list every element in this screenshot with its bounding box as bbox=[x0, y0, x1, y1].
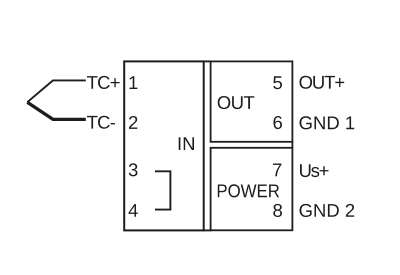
power section box POWER bbox=[211, 148, 293, 231]
pin 7 bbox=[273, 164, 281, 177]
label Us+ bbox=[300, 164, 329, 177]
label TC+ bbox=[87, 76, 120, 89]
pin 5 bbox=[273, 76, 282, 89]
wire TC- lead (thick thermocouple leg) bbox=[27, 102, 86, 119]
label IN bbox=[179, 137, 194, 150]
label GND 2 bbox=[300, 204, 355, 217]
pin 1 bbox=[130, 76, 138, 89]
wire TC+ lead bbox=[27, 80, 86, 102]
pin 6 bbox=[274, 116, 283, 129]
wire segment joining IN box and OUT box top edges bbox=[203, 60, 212, 62]
pin 8 bbox=[273, 204, 282, 217]
label POWER bbox=[218, 184, 279, 197]
pin 4 bbox=[129, 204, 138, 217]
label OUT+ bbox=[300, 76, 345, 89]
jumper wire between pin 3 and pin 4 bbox=[155, 171, 170, 209]
pin 2 bbox=[129, 116, 137, 129]
wire segment joining OUT and POWER boxes right edge bbox=[291, 141, 293, 149]
wire segment joining IN box and POWER box bottom edges bbox=[203, 229, 212, 231]
label GND 1 bbox=[300, 116, 355, 129]
label OUT bbox=[218, 96, 255, 109]
pin 3 bbox=[129, 163, 138, 176]
output section box OUT bbox=[211, 61, 293, 141]
label TC- bbox=[87, 116, 115, 129]
module input section box IN bbox=[124, 61, 204, 230]
